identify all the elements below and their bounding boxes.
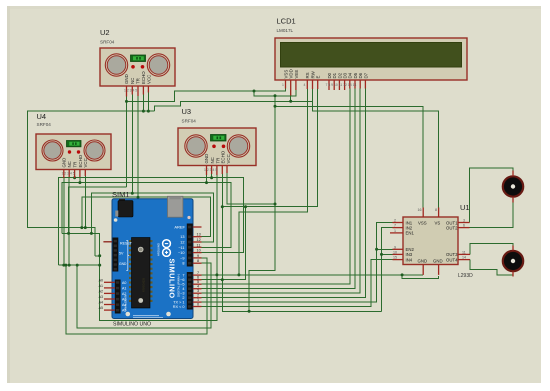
svg-text:LCD1: LCD1 (277, 17, 296, 26)
SIM1 analog pin stubs (104, 282, 115, 310)
svg-text:2: 2 (182, 296, 184, 300)
svg-text:ARDUINO: ARDUINO (157, 242, 161, 256)
U1 pin stubs (390, 208, 470, 275)
SIM1 header pin pads (188, 226, 191, 308)
svg-text:RESET: RESET (120, 242, 133, 246)
SIM1 Arduino logo (157, 240, 171, 257)
wire LCD D4 to pin5 (202, 89, 350, 285)
wire pin0 row to U1 IN4 (202, 260, 393, 307)
wire pin12 to U2.NC (91, 193, 213, 242)
svg-text:3: 3 (197, 289, 199, 293)
svg-text:A5: A5 (122, 309, 126, 313)
svg-text:VEE: VEE (294, 70, 299, 79)
svg-text:7: 7 (197, 271, 199, 275)
svg-text:TR: TR (215, 158, 220, 164)
SIM1 right pin black digits (197, 233, 201, 307)
U1 pin numbers (393, 208, 466, 260)
svg-text:1 2 3 4 5: 1 2 3 4 5 (204, 168, 217, 172)
svg-text:VSS: VSS (418, 220, 427, 225)
wire pin1 row to U1 IN1 (202, 223, 393, 303)
svg-text:LM017L: LM017L (277, 28, 294, 33)
wire U4.ECHO drop (79, 177, 81, 183)
wire U1 IN3 link (382, 253, 393, 255)
svg-text:~10: ~10 (178, 251, 184, 255)
SIM1 ATMEGA328 IC (129, 238, 153, 309)
wire +5V small link row (95, 255, 100, 257)
wire LCD D6 to pin3 (202, 89, 361, 294)
svg-text:SRF04: SRF04 (182, 119, 197, 124)
svg-text:SIMULINO: SIMULINO (168, 259, 177, 299)
wire GND row to U1 VSS pin16 (275, 106, 423, 207)
svg-text:6: 6 (463, 224, 465, 228)
svg-text:2: 2 (197, 294, 199, 298)
SIM1 mounting holes (126, 312, 131, 317)
svg-text:13: 13 (197, 233, 201, 237)
svg-text:RX < 0: RX < 0 (173, 305, 185, 309)
SIM1 right pin stubs (193, 227, 202, 307)
wire U1 IN2 chain (382, 228, 393, 312)
svg-text:A4: A4 (122, 303, 126, 307)
svg-text:9: 9 (197, 254, 199, 258)
wire U4.NC drop (68, 177, 70, 265)
wire GND branch to LCD VEE (254, 90, 296, 96)
svg-text:GND: GND (119, 262, 127, 266)
wire pin11 to U4.ECHO (62, 183, 231, 248)
svg-text:NC: NC (130, 78, 135, 84)
wire +5V row left to rail (28, 111, 155, 256)
svg-text:A0: A0 (99, 278, 103, 282)
motor M2 (503, 251, 523, 271)
wire LCD RW drop to U1 VS pin8 (313, 89, 439, 208)
svg-text:12: 12 (180, 241, 184, 245)
svg-text:~11: ~11 (178, 246, 184, 250)
svg-text:A3: A3 (122, 298, 126, 302)
ultrasonic sensor U3 (SRF04) (178, 107, 256, 166)
svg-text:A1: A1 (99, 284, 103, 288)
svg-text:GND: GND (62, 158, 67, 168)
svg-text:7 8 9 10 11 12 13 14: 7 8 9 10 11 12 13 14 (326, 83, 357, 87)
svg-text:4: 4 (182, 287, 184, 291)
svg-text:ATMEGA328: ATMEGA328 (143, 277, 146, 292)
svg-text:7: 7 (394, 224, 396, 228)
svg-text:11: 11 (197, 243, 201, 247)
svg-text:~5: ~5 (180, 283, 184, 287)
wire pin9 branch to rail (66, 258, 207, 334)
wire LCD D7 to pin2 (202, 89, 366, 298)
SIM1 bottom silk text (133, 314, 159, 317)
wire U4.VCC drop to +5V row (84, 176, 86, 228)
SIM1 analog pin black labels (99, 278, 103, 310)
svg-text:1: 1 (197, 298, 199, 302)
SIM1 digital header lower (187, 272, 193, 310)
wire U3.NC drop (211, 174, 213, 178)
svg-text:8: 8 (435, 208, 437, 212)
motor-driver U1 (L293D) (403, 203, 473, 279)
svg-text:15: 15 (393, 256, 397, 260)
svg-text:L293D: L293D (458, 273, 473, 279)
svg-text:SIM1: SIM1 (112, 190, 130, 199)
svg-text:~9: ~9 (180, 256, 184, 260)
wire GND trunk vertical x=275 (249, 96, 275, 311)
LCD1 pin stubs (286, 80, 366, 96)
svg-text:U1: U1 (460, 203, 470, 212)
svg-text:GND: GND (124, 74, 129, 84)
wire pin8 branch to rail (77, 263, 211, 328)
svg-text:AREF: AREF (174, 225, 185, 230)
SIM1 analog header (115, 280, 121, 314)
SIM1 power jack (119, 199, 125, 202)
svg-text:GND: GND (204, 154, 209, 164)
Arduino board SIM1 (SIMULINO UNO) (112, 190, 193, 328)
wire E branch to pin6 (202, 207, 246, 280)
wire U1 OUT4 to motor M2 (470, 260, 513, 276)
svg-text:14: 14 (462, 256, 466, 260)
svg-text:1 2 3 4 5: 1 2 3 4 5 (62, 172, 75, 176)
SIM1 digital header upper (187, 224, 193, 267)
svg-text:5: 5 (197, 280, 199, 284)
svg-text:GND: GND (433, 259, 443, 264)
svg-text:OUT2: OUT2 (446, 225, 458, 230)
svg-text:3: 3 (463, 219, 465, 223)
svg-text:1 2 3 4 5: 1 2 3 4 5 (124, 89, 137, 93)
svg-text:7: 7 (182, 274, 184, 278)
U2 pin stubs (127, 86, 149, 97)
wire U1 EN2 link (377, 248, 393, 250)
svg-text:8: 8 (182, 262, 184, 266)
SIM1 reset header (113, 238, 119, 272)
svg-text:A1: A1 (122, 287, 126, 291)
wire LCD VDD drop (290, 90, 292, 101)
svg-text:11: 11 (462, 250, 466, 254)
SIM1 analog pin white digits (122, 281, 126, 313)
SIM1 white pin digits (173, 235, 185, 309)
svg-text:13: 13 (180, 235, 184, 239)
wire U2.GND drop (126, 97, 128, 188)
SIM1 power text (126, 241, 129, 271)
wire GND: U2.GND to LCD VSS (127, 89, 286, 102)
wire pin13 to U2.TR (82, 197, 211, 237)
junction dots (125, 100, 128, 103)
wire U4.TR drop (74, 176, 76, 178)
svg-text:GND: GND (418, 259, 428, 264)
wire U1 OUT1 to motor M1 (470, 168, 514, 223)
wire LCD E chain (222, 89, 317, 207)
SIM1 reset pin stub (103, 241, 112, 243)
wire LCD D5 to pin4 (202, 89, 356, 289)
svg-text:~3: ~3 (180, 292, 184, 296)
motor M1 pin stubs (512, 171, 514, 203)
wire U1 OUT3 to motor M2 (470, 244, 513, 255)
wire U3.ECHO long drop to GND rail (222, 174, 381, 311)
svg-text:A2: A2 (122, 292, 126, 296)
svg-text:OUT4: OUT4 (446, 257, 458, 262)
svg-text:TX > 1: TX > 1 (173, 301, 184, 305)
motor M2 pin stubs (512, 246, 514, 277)
svg-text:~6: ~6 (180, 278, 184, 282)
wire pin10 to U4.TR (58, 178, 243, 265)
SIM1 USB connector (168, 196, 183, 217)
svg-text:NC: NC (67, 161, 72, 167)
svg-text:SRF04: SRF04 (100, 40, 115, 45)
LCD display LCD1 (LM017L) (275, 17, 467, 81)
svg-text:A3: A3 (99, 295, 103, 299)
svg-text:SRF04: SRF04 (37, 122, 52, 127)
U4 pin stubs (64, 170, 86, 179)
svg-text:A2: A2 (99, 290, 103, 294)
svg-text:5V: 5V (119, 252, 124, 256)
svg-text:9: 9 (394, 245, 396, 249)
wire U3.GND drop (206, 175, 208, 183)
svg-text:TR: TR (136, 78, 141, 84)
svg-text:VS: VS (435, 220, 441, 225)
SIM1 indicator dot (187, 216, 190, 219)
svg-text:10: 10 (393, 250, 397, 254)
svg-text:16: 16 (418, 208, 422, 212)
motor M1 (503, 176, 523, 196)
svg-text:8: 8 (197, 259, 199, 263)
svg-text:12: 12 (197, 238, 201, 242)
svg-text:VCC: VCC (146, 75, 151, 84)
svg-text:A4: A4 (99, 301, 103, 305)
wire GND jog to U1 GND pins (402, 275, 439, 279)
svg-text:1: 1 (282, 83, 284, 87)
wire U3.VCC chain (227, 173, 275, 204)
wire U2.TR drop (137, 96, 139, 197)
svg-text:NC: NC (210, 157, 215, 163)
svg-text:A0: A0 (122, 281, 126, 285)
wire U2.NC drop (131, 95, 133, 194)
wire LCD RS chain to pin7 (239, 89, 307, 275)
svg-text:U2: U2 (100, 28, 110, 37)
svg-text:U3: U3 (182, 107, 192, 116)
svg-text:1: 1 (394, 229, 396, 233)
svg-text:E: E (316, 76, 321, 79)
wire U1 OUT2 to motor M1 (470, 203, 514, 228)
ultrasonic sensor U4 (SRF04) (36, 112, 111, 170)
wire bundle link vertical (69, 187, 127, 233)
wire +5V jog to LCD VDD row (154, 101, 312, 111)
wire pin7 branch / U3.TR long drop to bottom rail (62, 175, 217, 320)
svg-text:4: 4 (197, 285, 199, 289)
svg-text:A5: A5 (99, 306, 103, 310)
U3 pin stubs (207, 166, 228, 176)
wire pin7 row to U1 GND (202, 274, 424, 276)
svg-text:4: 4 (304, 83, 306, 87)
svg-text:10: 10 (197, 249, 201, 253)
wire U2.ECHO drop (142, 95, 144, 112)
svg-text:D7: D7 (363, 72, 368, 78)
svg-text:U4: U4 (37, 112, 47, 121)
svg-text:VCC: VCC (83, 158, 88, 167)
svg-text:EN1: EN1 (406, 231, 415, 236)
wire U4 ground row (58, 264, 99, 266)
svg-text:SIMULINO UNO: SIMULINO UNO (113, 322, 151, 328)
wire U4.GND drop (63, 178, 65, 265)
svg-text:VCC: VCC (226, 154, 231, 163)
svg-text:2: 2 (394, 219, 396, 223)
svg-text:0: 0 (197, 303, 199, 307)
wire +5V: U2.VCC drop (147, 93, 149, 112)
svg-text:IN4: IN4 (406, 257, 413, 262)
ultrasonic sensor U2 (SRF04) (100, 28, 175, 86)
svg-text:6: 6 (197, 276, 199, 280)
svg-text:TR: TR (73, 162, 78, 168)
